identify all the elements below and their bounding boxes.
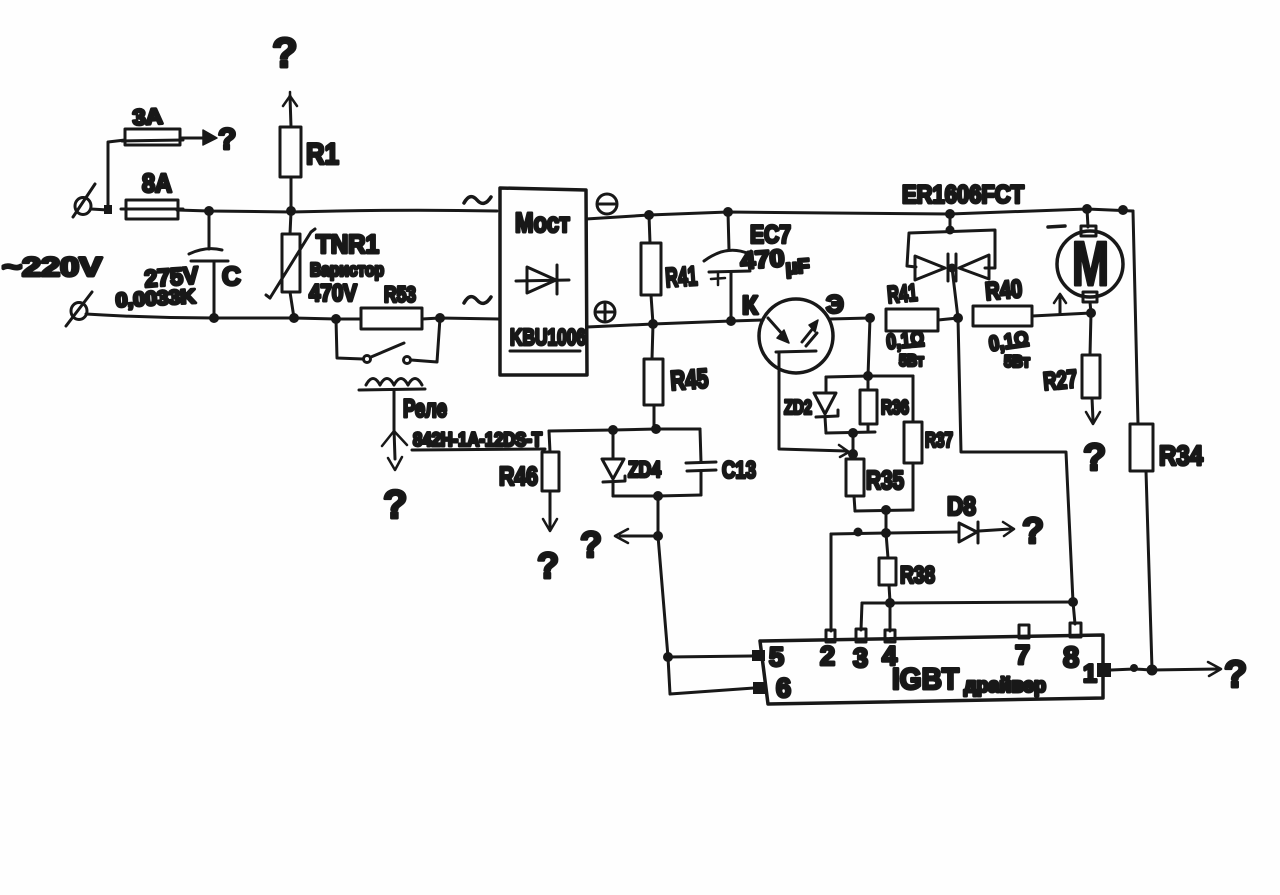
underline 842H — [412, 449, 545, 450]
wire 3A to arrow — [180, 137, 205, 140]
svg-text:R34: R34 — [1159, 440, 1203, 471]
svg-text:1: 1 — [1083, 660, 1097, 688]
underline KBU1006 — [510, 350, 580, 353]
svg-text:?: ? — [537, 545, 559, 586]
arrowhead D8 — [1003, 522, 1014, 536]
svg-text:IGBT: IGBT — [892, 663, 959, 696]
junction bottom rail center — [653, 491, 663, 501]
junction pin5 node — [663, 652, 673, 662]
wire 3A branch vertical — [108, 140, 125, 209]
svg-text:ZD4: ZD4 — [628, 457, 662, 482]
svg-text:Мост: Мост — [515, 207, 570, 238]
junction bottom rail at R38 — [881, 505, 891, 515]
svg-text:R35: R35 — [866, 465, 904, 495]
svg-text:μF: μF — [785, 255, 810, 279]
junction bus at pin8 — [1068, 597, 1078, 607]
wire D8 line — [831, 532, 958, 534]
input terminal L (top) — [73, 184, 95, 217]
diode symbol inside bridge — [516, 265, 569, 294]
relay coil K1 — [359, 379, 425, 391]
zener ZD4 — [602, 430, 625, 496]
junction top wire at ER1606 — [945, 209, 955, 219]
wire DC- top main — [586, 209, 1133, 219]
resistor R41 (vertical) — [641, 215, 661, 324]
wire divider bottom rail (ZD2/R36) — [826, 432, 875, 433]
junction N at capacitor — [209, 313, 219, 323]
wire center tap down — [952, 268, 958, 318]
IGBT-SECTION — [752, 597, 1247, 704]
label ~ (bridge AC bottom) — [464, 297, 491, 304]
svg-text:R53: R53 — [384, 282, 416, 307]
label + (EC7) — [711, 272, 725, 285]
svg-text:R27: R27 — [1042, 365, 1078, 396]
svg-text:R45: R45 — [669, 363, 709, 396]
relay contact — [364, 343, 411, 364]
junction rail at ZD4 — [608, 425, 618, 435]
junction N right of R53 — [435, 313, 445, 323]
arrowhead 3A — [203, 130, 217, 145]
wire R46/ZD4/C13 top rail — [549, 429, 700, 431]
junction minus at R41 — [644, 210, 654, 220]
wire R46 arrow down — [549, 491, 552, 527]
resistor R34 — [1130, 424, 1153, 669]
wire relay coil down — [394, 391, 395, 459]
svg-text:EC7: EC7 — [750, 221, 791, 249]
svg-text:К: К — [742, 290, 758, 320]
svg-text:KBU1006: KBU1006 — [510, 324, 586, 350]
svg-text:драйвер: драйвер — [964, 675, 1046, 697]
svg-text:Э: Э — [826, 291, 844, 319]
resistor R38 — [879, 533, 896, 602]
svg-text:C13: C13 — [722, 457, 756, 484]
label minus (motor) — [1048, 226, 1065, 227]
wire pin1 out — [1111, 669, 1218, 670]
pin 8 pad — [1070, 623, 1081, 637]
wire left arrow — [620, 535, 656, 538]
junction R41h/R40 — [953, 313, 963, 323]
LEFT-INPUT-SECTION — [2, 29, 545, 527]
svg-text:R40: R40 — [984, 275, 1023, 306]
plus output symbol — [595, 302, 615, 322]
svg-text:3A: 3A — [132, 103, 163, 130]
resistor R36 — [860, 376, 877, 432]
relay arrow fletch — [382, 431, 407, 446]
resistor R37 — [904, 376, 922, 510]
wire down to gnd-arrow node — [657, 496, 660, 536]
arrowhead relay — [388, 457, 402, 470]
svg-text:R41: R41 — [664, 261, 698, 293]
svg-text:R1: R1 — [306, 138, 339, 171]
arrowhead base wire — [839, 445, 849, 457]
svg-text:5: 5 — [769, 642, 784, 672]
resistor R45 — [644, 324, 663, 429]
wire bottom main N — [86, 314, 499, 319]
wire top to TNR1 — [290, 212, 291, 234]
capacitor C13 — [686, 429, 716, 495]
svg-text:ZD2: ZD2 — [784, 397, 812, 419]
arrowhead R1 ? — [283, 92, 297, 106]
svg-text:?: ? — [1224, 654, 1247, 696]
pin 2 pad — [826, 630, 835, 642]
pin 6 pad — [753, 682, 767, 694]
svg-text:R46: R46 — [499, 461, 538, 491]
IC U1 IGBT driver (box) — [760, 635, 1103, 704]
resistor R1 — [280, 127, 301, 177]
svg-text:TNR1: TNR1 — [316, 229, 379, 259]
svg-text:M: M — [1072, 230, 1109, 299]
svg-text:?: ? — [580, 524, 602, 565]
wire D8 arrow — [979, 529, 1010, 531]
bridge rectifier KBU1006 (box) — [500, 188, 587, 375]
fuse F2 8A — [121, 200, 183, 219]
junction rail at R45 — [651, 424, 661, 434]
capacitor EC7 — [704, 212, 752, 321]
junction bus at R38/pin4 — [885, 598, 895, 608]
wire ZD4/C13 bottom rail — [613, 495, 701, 496]
arrowhead pin1 ? — [1208, 662, 1221, 676]
svg-text:?: ? — [218, 123, 236, 156]
junction top wire at motor — [1082, 204, 1092, 214]
input terminal N (bottom) — [66, 292, 92, 326]
wire to pin2 — [830, 534, 833, 631]
resistor R53 — [361, 308, 422, 329]
wire relay contact left — [336, 319, 363, 359]
svg-text:3: 3 — [853, 643, 868, 673]
resistor R35 — [846, 459, 864, 511]
fuse F1 3A — [122, 129, 183, 145]
wire R27 arrow down — [1092, 398, 1093, 420]
junction base/R35 node — [848, 449, 858, 459]
junction D8 line left — [854, 528, 863, 537]
svg-text:R36: R36 — [881, 397, 909, 419]
pin 7 pad — [1019, 625, 1029, 638]
wire emitter node down to divider rail — [868, 318, 870, 376]
junction motor bottom node — [1086, 308, 1096, 318]
svg-text:R37: R37 — [925, 429, 953, 452]
svg-text:Реле: Реле — [403, 395, 447, 423]
varistor TNR1 — [266, 229, 315, 298]
svg-text:0,0033K: 0,0033K — [115, 286, 197, 312]
junction at capacitor C — [204, 206, 214, 216]
junction arrow node — [653, 531, 663, 541]
wire DC+ bottom — [587, 320, 763, 327]
diode D8 — [959, 522, 978, 543]
arrow up (motor +) — [1054, 294, 1066, 313]
wire divider top rail — [826, 376, 913, 377]
svg-text:D8: D8 — [947, 491, 976, 521]
resistor R46 — [542, 431, 559, 491]
junction D8 line at R38 — [881, 528, 891, 538]
arrowhead R46 — [543, 519, 557, 531]
wire down to R35 — [852, 433, 855, 455]
wire bus to pin8 — [1073, 602, 1075, 624]
svg-text:470V: 470V — [309, 280, 357, 307]
junction top at R1/TNR1 — [286, 206, 296, 216]
pin 4 pad — [885, 630, 895, 642]
RIGHT-SECTION — [885, 181, 1203, 669]
junction plus at EC7 — [726, 316, 736, 326]
svg-text:~220V: ~220V — [2, 252, 102, 282]
svg-text:C: C — [222, 261, 241, 291]
svg-text:5Вт: 5Вт — [899, 351, 924, 370]
junction divider top — [863, 371, 873, 381]
wire to pin 6 — [668, 657, 754, 694]
junction plus at R41/R45 — [648, 319, 658, 329]
svg-text:R38: R38 — [900, 562, 935, 589]
BRIDGE-SECTION — [464, 188, 1133, 429]
wire top main L — [91, 209, 497, 212]
resistor R40 — [973, 306, 1091, 326]
dual diode ER1606FCT package — [907, 214, 995, 281]
transistor Q1 (IGBT) — [759, 299, 833, 373]
wire gate bus — [862, 602, 1073, 603]
minus output symbol — [597, 194, 617, 214]
junction ER1606 center tap — [948, 264, 957, 273]
resistor R27 — [1082, 313, 1100, 398]
svg-text:6: 6 — [776, 673, 791, 703]
svg-text:ER1606FCT: ER1606FCT — [902, 181, 1024, 209]
zener ZD2 — [814, 377, 838, 433]
wire R1 top to arrow — [290, 96, 291, 127]
wire down to D8 line — [885, 510, 888, 533]
wire relay contact right — [411, 318, 440, 362]
resistor R41 (horizontal 0.1R) — [886, 309, 958, 331]
capacitor C (X-cap) — [189, 211, 228, 317]
junction N at relay branch — [331, 314, 341, 324]
svg-text:?: ? — [383, 483, 407, 527]
svg-text:?: ? — [1083, 437, 1106, 479]
wire down to pin5 node — [658, 536, 668, 657]
svg-text:Варистор: Варистор — [310, 260, 384, 280]
junction pin1/R34 — [1147, 665, 1158, 676]
svg-text:2: 2 — [820, 641, 835, 671]
wire R1 bottom — [290, 177, 293, 211]
MIDDLE-SECTION — [499, 290, 1044, 694]
svg-text:470: 470 — [740, 245, 786, 275]
svg-text:8A: 8A — [142, 168, 172, 198]
svg-text:?: ? — [1022, 510, 1044, 551]
junction emitter node — [865, 313, 875, 323]
wire base down — [779, 353, 846, 451]
pin 5 pad — [752, 650, 765, 661]
wire right-link down from R41/R40 node — [958, 318, 1073, 602]
arrowhead R27 — [1086, 412, 1100, 424]
wire TNR1 bottom — [290, 292, 294, 318]
svg-text:R41: R41 — [886, 279, 918, 309]
svg-text:8: 8 — [1063, 642, 1079, 674]
junction N at TNR1 — [289, 313, 299, 323]
svg-text:?: ? — [272, 29, 298, 76]
motor M — [1057, 209, 1123, 313]
svg-text:7: 7 — [1015, 640, 1030, 670]
wire bus to pin4 — [889, 603, 892, 631]
pin 1 pad — [1097, 663, 1111, 677]
pin 3 pad — [856, 629, 866, 642]
label ~ (bridge AC top) — [464, 197, 491, 204]
arrowhead left ? — [615, 529, 628, 543]
wire to pin 5 — [668, 656, 752, 657]
svg-text:5Вт: 5Вт — [1004, 352, 1030, 371]
junction minus at EC7 — [723, 207, 733, 217]
wire bus to pin3 — [861, 603, 862, 630]
junction pin1 wire — [1130, 664, 1138, 672]
wire emitter to R41h — [830, 318, 870, 319]
junction top right corner — [1118, 205, 1128, 215]
wire R35/R37 bottom rail — [855, 510, 913, 511]
wire right edge vertical — [1133, 211, 1138, 424]
junction ZD2 bottom rail — [848, 428, 858, 438]
junction top at fuse-3A branch — [104, 205, 112, 214]
